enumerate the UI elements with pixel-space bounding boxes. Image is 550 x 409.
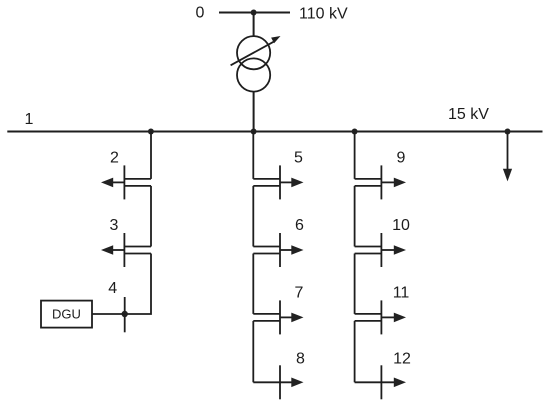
wire right feeder: bus1 to switch 9: [354, 132, 356, 179]
wire middle feeder: bus1 to switch 5: [252, 132, 254, 179]
switch 9 (right feeder, arrow out right): [355, 165, 406, 199]
wire DGU to node 4: [92, 313, 125, 315]
switch 11 (right feeder, arrow out right): [355, 300, 406, 334]
bus 1 (15 kV busbar): [7, 131, 542, 133]
svg-text:15 kV: 15 kV: [448, 106, 489, 123]
switch 10 (right feeder, arrow out right): [355, 233, 406, 267]
wire left feeder: switch 2 to switch 3: [150, 186, 152, 247]
svg-text:10: 10: [392, 217, 410, 234]
wire middle feeder: switch 5 to switch 6: [252, 186, 254, 247]
switch 7 (middle feeder, arrow out right): [253, 300, 303, 334]
svg-text:2: 2: [110, 150, 119, 167]
switch 8 (middle feeder end, arrow out right): [253, 365, 303, 399]
svg-text:4: 4: [108, 280, 117, 297]
switch 5 (middle feeder, arrow out right): [253, 165, 303, 199]
svg-text:7: 7: [295, 285, 304, 302]
svg-text:1: 1: [25, 111, 34, 128]
junction dot node 4: [122, 311, 128, 317]
transformer T (two-winding, OLTC): [231, 36, 281, 92]
junction dot bus1 / load arrow: [505, 129, 511, 135]
svg-text:11: 11: [393, 285, 410, 302]
wire middle feeder: switch 7 to switch 8: [252, 321, 254, 382]
switch 3 (left feeder, arrow out left): [101, 233, 151, 267]
switch 2 (left feeder, arrow out left): [101, 165, 151, 199]
svg-text:5: 5: [294, 150, 303, 167]
load arrow on bus 1: [503, 132, 512, 182]
junction dot bus1 / left feeder: [148, 129, 154, 135]
switch 6 (middle feeder, arrow out right): [253, 233, 303, 267]
wire right feeder: switch 10 to switch 11: [354, 254, 356, 314]
DGU box: [41, 301, 92, 328]
wire bus 0 to transformer: [253, 13, 255, 38]
switch 12 (right feeder end, arrow out right): [355, 365, 406, 399]
wire right feeder: switch 11 to switch 12: [354, 321, 356, 382]
svg-text:110 kV: 110 kV: [299, 6, 348, 23]
svg-text:8: 8: [296, 350, 305, 367]
bus 0 (110 kV busbar): [219, 12, 290, 14]
svg-text:12: 12: [393, 350, 411, 367]
wire left feeder: bus1 to switch 2: [150, 132, 152, 179]
svg-text:9: 9: [397, 150, 406, 167]
svg-text:3: 3: [110, 217, 119, 234]
junction dot bus1 / right feeder: [352, 129, 358, 135]
junction dot on bus 0: [251, 10, 257, 16]
wire left feeder: switch 3 down and across to node 4: [125, 254, 151, 315]
wire right feeder: switch 9 to switch 10: [354, 186, 356, 247]
svg-text:0: 0: [196, 4, 205, 21]
wire middle feeder: switch 6 to switch 7: [252, 254, 254, 314]
svg-text:6: 6: [295, 217, 304, 234]
switch 4 (DGU connection bar): [124, 297, 126, 332]
svg-text:DGU: DGU: [52, 307, 81, 322]
junction dot bus1 / transformer: [251, 129, 257, 135]
wire transformer to bus 1: [253, 92, 255, 132]
